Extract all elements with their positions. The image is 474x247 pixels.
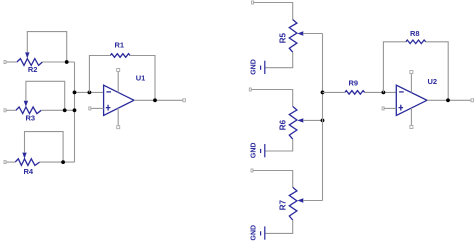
wire R5 top [254,3,293,20]
junction U1 output-feedback [153,98,157,102]
wire wiper bus right [322,34,324,201]
wire R1 feedback left [89,56,110,93]
op-amp U1 [104,74,146,116]
wire R6 top [251,90,292,107]
wire R5 wiper [303,33,323,35]
svg-text:R9: R9 [349,79,359,88]
wire U2 V- stub [410,108,412,126]
wire R6 wiper [303,119,323,121]
wire R8 feedback left [383,42,406,93]
port input R7 [251,169,253,172]
wire U1 V- stub [117,108,119,126]
wire U2 plus input [384,107,396,109]
wire R2 right lead [42,61,74,63]
resistor R9 [345,79,365,95]
potentiometer R5 [278,20,303,53]
port input R3 [4,109,6,112]
svg-text:R6: R6 [278,119,287,130]
junction R3 wiper-terminal [63,108,67,112]
junction bus-R9 [321,91,325,95]
wire R7 bottom to ground [265,220,293,233]
junction R1 feedback tap [88,91,92,95]
junction U2 output-feedback [446,98,450,102]
wire R6 bottom to ground [265,139,293,151]
wire R9 to U2 minus [365,91,397,93]
junction R6 wiper-bus [321,119,325,123]
junction R2 wiper-terminal [65,60,69,64]
wire R4 left lead [6,161,15,163]
junction R4 wiper-terminal [61,160,65,164]
potentiometer R4 [15,153,39,176]
op-amp U2 [396,77,437,115]
wire U1 V+ stub [117,72,119,93]
wire R3 right lead [41,109,74,111]
wire R4 wiper loop [25,132,64,163]
wire bus to R9 [323,91,345,93]
junction R8 feedback tap [382,91,386,95]
wire R1 feedback right [130,56,155,101]
wire U2 V+ stub [410,74,412,93]
potentiometer R2 [17,52,43,74]
wire R4 right lead [40,161,75,163]
svg-text:R2: R2 [28,65,38,74]
port U2 V+ [410,71,413,74]
port input R4 [4,161,6,164]
port U1 V+ [117,69,120,72]
port U2 V- [410,126,413,129]
wire U2 output [427,99,472,101]
wire R8 feedback right [426,42,449,101]
port U1 output [183,99,186,102]
ground GND2 [250,143,264,159]
svg-text:GND: GND [250,59,257,75]
port U1 non-inverting input [89,107,91,110]
wire U1 plus input [91,107,104,109]
wire R3 left lead [6,109,16,111]
wire U1 output [134,99,183,101]
svg-text:R3: R3 [26,114,36,123]
wire R2 wiper loop [27,32,66,62]
svg-text:R8: R8 [410,29,420,38]
resistor R1 [110,41,130,58]
wire R2 left lead [6,61,17,63]
port input R6 [249,88,251,91]
port U2 non-inverting input [382,107,384,110]
potentiometer R3 [16,101,41,123]
junction bus-minus [73,91,77,95]
wire R3 wiper loop [26,81,65,110]
svg-text:GND: GND [250,225,257,241]
resistor R8 [406,29,426,44]
potentiometer R7 [278,187,303,220]
port U1 V- [117,126,120,129]
wire R5 bottom to ground [265,52,293,67]
svg-text:R1: R1 [115,41,125,50]
port input R2 [4,61,6,64]
port input R5 [252,1,254,4]
port U2 output [471,99,474,102]
wire summing bus vertical [74,62,76,162]
ground GND1 [250,59,264,75]
wire R7 top [253,171,293,188]
wire inverting input U1 [75,91,104,93]
junction bus-R3 [73,108,77,112]
ground GND3 [250,225,264,241]
svg-text:GND: GND [250,143,257,159]
wire R7 wiper [303,200,323,202]
potentiometer R6 [278,106,303,139]
svg-text:R5: R5 [278,33,287,44]
svg-text:U2: U2 [428,77,438,86]
svg-text:R7: R7 [278,200,287,211]
svg-text:U1: U1 [136,74,146,83]
svg-text:R4: R4 [24,167,34,176]
